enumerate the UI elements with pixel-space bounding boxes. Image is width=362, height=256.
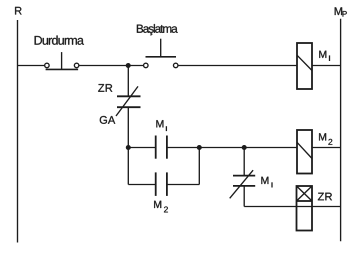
coil ZR (timer coil, rectangle with X box) xyxy=(297,186,333,231)
wire down from rung2 to M1 timed contact xyxy=(243,148,245,176)
wire to coil ZR xyxy=(244,206,340,208)
wire Durdurma to Baslatma xyxy=(79,65,144,67)
node junction dot rung1 xyxy=(126,63,131,68)
wire Baslatma to coil M1 xyxy=(178,65,297,67)
wire left supply rail R xyxy=(17,20,19,243)
wire contact M2 to right vertical xyxy=(167,184,199,186)
node junction dot rung2 middle xyxy=(197,145,202,150)
node R label xyxy=(15,7,22,15)
pushbutton Baslatma (NO start button) xyxy=(137,24,178,68)
coil M1 (contactor coil, rectangle with diagonal) xyxy=(297,43,330,89)
pushbutton Durdurma (NC stop button) xyxy=(35,36,84,70)
wire coil M2 to right rail xyxy=(312,147,341,149)
wire right supply rail Mp xyxy=(340,19,342,242)
node junction dot rung2 right xyxy=(242,145,247,150)
wire M2 branch to contact M2 xyxy=(128,184,155,186)
wire ZR contact down to rung2 xyxy=(127,107,129,147)
wire coil M1 to right rail xyxy=(312,65,341,67)
contact ZR GA (NC timed contact) xyxy=(98,84,140,124)
wire M2 branch right vertical xyxy=(198,148,200,185)
contact M2 (NO contact) xyxy=(154,172,168,212)
node junction dot rung2 left xyxy=(126,145,131,150)
contact M1 (NC timed contact) xyxy=(230,170,272,198)
wire M1 timed contact down to ZR coil line xyxy=(243,186,245,207)
node Mp label xyxy=(335,7,347,16)
wire contact M1 to coil M2 xyxy=(167,147,297,149)
wire rung2 to contact M1 xyxy=(128,147,155,149)
wire junction down to ZR timed contact xyxy=(127,66,129,97)
wire M2 branch left vertical xyxy=(127,148,129,185)
contact M1 (NO holding contact) xyxy=(156,120,167,159)
wire rung1 from left rail to Durdurma xyxy=(18,65,45,67)
coil M2 (contactor coil, rectangle with diagonal) xyxy=(297,130,332,174)
